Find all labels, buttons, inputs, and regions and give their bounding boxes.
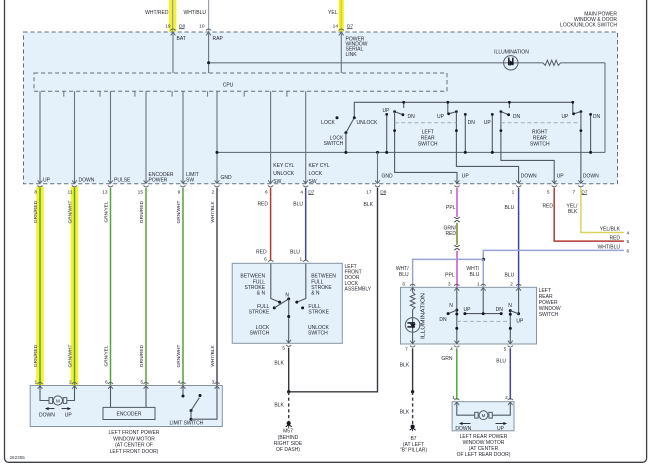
right SPDT contact dot	[517, 312, 520, 315]
svg-text:11: 11	[68, 189, 73, 195]
svg-text:DOWN: DOWN	[455, 426, 471, 432]
svg-text:& N: & N	[311, 291, 320, 297]
svg-text:DOWN: DOWN	[521, 174, 537, 180]
svg-text:POWER: POWER	[149, 178, 168, 184]
connector on UP wire lower	[454, 245, 459, 247]
svg-text:3: 3	[448, 282, 451, 288]
wire CPU pin 2 down	[216, 91, 218, 183]
pin 11 exit arrow	[72, 180, 74, 183]
motor box entry arrows	[38, 386, 40, 389]
LR switch entry arrows	[410, 288, 412, 291]
switch lever	[395, 112, 403, 115]
svg-text:GRN/RED: GRN/RED	[139, 344, 145, 367]
wire resistor to lamp	[412, 310, 414, 344]
lock switch contact UNLOCK	[353, 116, 356, 119]
svg-text:GRN: GRN	[441, 356, 453, 362]
limit switch contact b	[199, 394, 202, 397]
wire WHT/BLK at x=217	[216, 188, 218, 385]
svg-text:DN: DN	[439, 317, 447, 323]
wire WHT/BLU to pin1	[482, 259, 484, 287]
pin 17 exit arrow	[375, 180, 377, 183]
highlight GRN/RED circuit wire 1	[36, 187, 44, 386]
wire key cyl unlock sw from CPU	[270, 91, 272, 183]
svg-text:262355: 262355	[10, 455, 26, 460]
svg-text:WHT/RED: WHT/RED	[145, 10, 169, 16]
wire PPL from UP pin3	[456, 188, 458, 217]
pin 13 exit arrow	[108, 180, 110, 183]
svg-text:BLK: BLK	[274, 402, 284, 408]
svg-text:9: 9	[178, 189, 181, 195]
svg-text:LIMIT SWITCH: LIMIT SWITCH	[170, 421, 204, 427]
svg-text:M57: M57	[283, 429, 293, 435]
wire pin5 to encoder	[145, 386, 147, 408]
svg-text:UP: UP	[561, 114, 569, 120]
switch grounded contact line	[386, 114, 388, 152]
output pin exit arrows	[455, 180, 457, 183]
illumination lamp LR switch	[405, 318, 420, 333]
wire illumination return drop	[604, 63, 606, 153]
ground B7	[411, 425, 415, 429]
pin 15 exit arrow	[144, 180, 146, 183]
switch lever	[449, 112, 457, 114]
svg-text:GRN/WHT: GRN/WHT	[176, 200, 182, 223]
svg-text:17: 17	[366, 189, 372, 195]
svg-text:RAP: RAP	[213, 36, 224, 42]
svg-text:WHT/BLK: WHT/BLK	[210, 345, 216, 367]
wire lock side contact bracket	[271, 264, 280, 303]
svg-text:LEFT FRONT DOOR): LEFT FRONT DOOR)	[110, 449, 159, 455]
switch lever	[574, 112, 581, 114]
switch stub from bus	[403, 102, 405, 108]
wire pin4 to limit switch contact	[182, 386, 184, 395]
wire limit switch pivot down	[190, 411, 192, 420]
svg-text:19: 19	[165, 24, 171, 30]
svg-text:KEY CYL: KEY CYL	[309, 163, 330, 169]
svg-text:(BEHIND: (BEHIND	[278, 435, 299, 441]
svg-text:1: 1	[35, 379, 38, 385]
arrow DOWN direction	[46, 408, 55, 410]
svg-text:BLK: BLK	[400, 363, 410, 369]
wire RAP branch to illumination	[209, 62, 543, 64]
svg-text:GRN/RED: GRN/RED	[139, 200, 145, 223]
switch lever	[501, 112, 509, 115]
contact full stroke unlock	[301, 306, 304, 309]
switch grounded contact line	[464, 114, 466, 152]
wire BLK from GND pin17 down and left	[289, 188, 378, 392]
switch stub from bus	[508, 102, 510, 108]
svg-text:15: 15	[138, 189, 144, 195]
mechanical linkage right rear switch	[501, 122, 581, 124]
svg-text:ILLUMINATION: ILLUMINATION	[420, 292, 426, 339]
pin 6 exit arrow	[268, 180, 270, 183]
center bus from pin1	[482, 288, 484, 314]
splice on B7 wire	[411, 390, 414, 393]
svg-text:STROKE: STROKE	[249, 310, 270, 316]
limit switch pivot	[190, 409, 193, 412]
wire pin2 to motor	[67, 386, 75, 401]
svg-text:7: 7	[573, 189, 576, 195]
right SPDT lever	[510, 311, 518, 314]
svg-text:4: 4	[300, 189, 303, 195]
wire BLU LR switch pin5 to motor pin2	[509, 348, 511, 399]
svg-text:RED: RED	[257, 202, 268, 208]
ground M57	[287, 421, 291, 425]
svg-text:4: 4	[627, 231, 630, 237]
pin 2 exit arrow	[215, 180, 217, 183]
wire RED from UP pin5	[554, 188, 624, 241]
wire pin2 to motor	[493, 402, 511, 415]
svg-text:10: 10	[199, 24, 205, 30]
illumination lamp	[504, 56, 518, 70]
svg-text:SWITCH: SWITCH	[418, 141, 438, 147]
svg-text:1,: 1,	[299, 256, 303, 262]
svg-text:5: 5	[141, 379, 144, 385]
wire key cylinder common down	[288, 299, 290, 343]
wire CPU pin 11 down	[74, 91, 76, 183]
svg-text:BLU: BLU	[496, 358, 506, 364]
wire key cyl lock sw from CPU	[305, 91, 307, 183]
switch stub from bus	[572, 102, 574, 113]
left SPDT tip contact	[447, 312, 450, 315]
svg-text:RED: RED	[542, 203, 553, 209]
svg-text:SW: SW	[186, 178, 194, 184]
svg-text:BLK: BLK	[400, 410, 410, 416]
svg-text:7: 7	[405, 347, 408, 353]
motor M1 left front window	[49, 398, 53, 404]
wire GRN/RED at x=146	[145, 188, 147, 385]
wire resistor to right drop	[561, 62, 606, 64]
svg-text:M: M	[482, 413, 486, 418]
wire RR UP output to pin5	[501, 112, 554, 184]
svg-text:UP: UP	[383, 108, 391, 114]
svg-text:GRN/YEL: GRN/YEL	[103, 201, 109, 222]
svg-text:LINK: LINK	[346, 52, 358, 58]
wire BLK dashed to M57	[288, 392, 290, 422]
svg-text:YEL: YEL	[328, 10, 338, 16]
svg-text:DOWN: DOWN	[583, 174, 599, 180]
svg-text:LOCK/UNLOCK SWITCH: LOCK/UNLOCK SWITCH	[560, 22, 617, 28]
svg-text:PULSE: PULSE	[114, 178, 131, 184]
svg-text:RED: RED	[609, 235, 620, 241]
LR motor entry arrows	[454, 402, 456, 405]
wire GRN/RED segment	[456, 223, 458, 245]
svg-text:SWITCH: SWITCH	[530, 141, 550, 147]
wire pin1 to motor	[40, 386, 49, 401]
highlight WHT/RED circuit	[169, 0, 177, 32]
svg-text:RED: RED	[445, 231, 456, 237]
svg-text:6: 6	[627, 248, 630, 254]
svg-text:ENCODER: ENCODER	[116, 412, 141, 418]
wire RR DN output to pin7	[580, 112, 582, 184]
wire YEL/BLK from DOWN pin7	[581, 188, 624, 233]
svg-text:6: 6	[265, 189, 268, 195]
pin 4 exit arrow	[303, 180, 305, 183]
pivot dot	[509, 309, 512, 312]
svg-text:UNLOCK: UNLOCK	[273, 171, 295, 177]
junction RAP/illumination	[207, 61, 210, 64]
wire BLK dashed to B7	[412, 392, 414, 425]
svg-text:SW: SW	[273, 179, 281, 185]
svg-text:GRN/RED: GRN/RED	[33, 200, 39, 223]
switch stub from bus	[447, 102, 449, 113]
wire BLU from DOWN pin1 to LR switch pin2	[518, 188, 520, 287]
svg-text:BLU: BLU	[290, 250, 300, 256]
motor M2 left rear window	[475, 412, 478, 418]
svg-text:BLU: BLU	[504, 272, 514, 278]
arrow DOWN LR motor	[460, 423, 471, 425]
pin 9 exit arrow	[181, 180, 183, 183]
highlight GRN/WHT circuit wire 2	[71, 187, 79, 386]
junction GND pin17	[376, 151, 379, 154]
pin 8 exit arrow	[38, 180, 40, 183]
main power window and door lock/unlock switch box	[24, 32, 618, 184]
arrow UP direction	[62, 408, 71, 410]
LR switch exit arrows	[410, 341, 412, 344]
svg-text:UP: UP	[65, 412, 73, 418]
svg-text:GRN/RED: GRN/RED	[33, 344, 39, 367]
wire pin6 to encoder	[110, 386, 112, 408]
RAP entry arrow	[206, 32, 208, 35]
svg-text:6: 6	[264, 256, 267, 262]
lock switch lever	[346, 118, 354, 132]
svg-text:UP: UP	[43, 178, 51, 184]
limit switch contact a	[182, 395, 185, 398]
svg-text:SWITCH: SWITCH	[539, 312, 559, 318]
lock switch contact LOCK	[336, 116, 339, 119]
wire RAP to CPU	[208, 32, 210, 73]
svg-text:WHT/BLU: WHT/BLU	[184, 10, 207, 16]
CPU box U1	[34, 73, 447, 91]
svg-text:DN: DN	[496, 307, 504, 313]
svg-text:PPL: PPL	[445, 272, 455, 278]
lock switch pivot	[344, 131, 347, 134]
key cylinder lever	[275, 299, 289, 308]
svg-text:6: 6	[105, 379, 108, 385]
svg-text:GND: GND	[221, 175, 233, 181]
wire lock switch to ground bus	[345, 133, 347, 153]
svg-text:UP: UP	[516, 319, 524, 325]
svg-text:& N: & N	[257, 291, 266, 297]
junction lock switch on bus	[344, 151, 347, 154]
contact full stroke lock	[273, 306, 276, 309]
junction GND bus at CPU GND line	[216, 151, 219, 154]
svg-text:1: 1	[477, 282, 480, 288]
svg-text:GRN/WHT: GRN/WHT	[67, 344, 73, 367]
svg-text:UP: UP	[464, 307, 472, 313]
wire RED key cyl unlock	[270, 188, 272, 260]
wire limit switch to pin3	[191, 386, 217, 419]
svg-text:3: 3	[212, 379, 215, 385]
svg-text:OF LEFT REAR DOOR): OF LEFT REAR DOOR)	[457, 452, 511, 458]
svg-text:14: 14	[333, 24, 339, 30]
svg-text:5: 5	[504, 347, 507, 353]
svg-text:(AT CENTER OF: (AT CENTER OF	[115, 443, 153, 449]
svg-text:RED: RED	[256, 250, 267, 256]
wire WHT/BLU to pin6 illumination	[413, 259, 484, 287]
wire LR UP output to pin3	[395, 112, 457, 184]
pivot dot	[455, 309, 458, 312]
svg-text:BLU: BLU	[504, 205, 514, 211]
svg-text:GRN/WHT: GRN/WHT	[67, 200, 73, 223]
svg-text:LOCK: LOCK	[309, 171, 323, 177]
svg-text:N: N	[449, 303, 453, 309]
mechanical linkage left rear switch	[395, 122, 457, 124]
wire unlock side contact bracket	[297, 264, 306, 303]
svg-text:BLK: BLK	[274, 361, 284, 367]
ground bus wire	[217, 151, 605, 153]
svg-text:6: 6	[402, 282, 405, 288]
svg-text:1: 1	[512, 189, 515, 195]
svg-text:KEY CYL: KEY CYL	[273, 163, 294, 169]
svg-text:N: N	[508, 303, 512, 309]
svg-text:LEFT FRONT POWER: LEFT FRONT POWER	[109, 430, 160, 436]
svg-text:4: 4	[450, 347, 453, 353]
svg-text:BLU: BLU	[469, 272, 479, 278]
switch grounded contact line	[491, 114, 493, 152]
wire WHT/BLU RAP feed	[208, 0, 210, 31]
mechanical linkage LR switch	[457, 320, 511, 322]
svg-text:5: 5	[282, 345, 285, 351]
svg-text:2: 2	[505, 395, 508, 401]
svg-text:8: 8	[34, 189, 37, 195]
svg-text:13: 13	[102, 189, 108, 195]
svg-text:BAT: BAT	[177, 36, 186, 42]
wire GRN/WHT at x=74.5	[74, 188, 76, 385]
wire WHT/BLU ladder	[483, 250, 624, 259]
svg-text:SWITCH: SWITCH	[250, 331, 270, 337]
svg-text:2: 2	[212, 189, 215, 195]
svg-text:DN: DN	[593, 114, 601, 120]
left SPDT lever	[448, 310, 457, 314]
LR switch right SPDT contact line pin2	[518, 288, 520, 314]
svg-text:SWITCH: SWITCH	[308, 331, 328, 337]
svg-text:"B" PILLAR): "B" PILLAR)	[400, 448, 428, 454]
svg-text:2: 2	[69, 379, 72, 385]
switch grounded contact line	[590, 114, 592, 152]
wire GRN/YEL at x=110.5	[110, 188, 112, 385]
wire WHT/RED BAT feed	[172, 0, 174, 31]
highlight YEL serial link	[339, 0, 344, 32]
svg-text:STROKE: STROKE	[308, 310, 329, 316]
wire BAT to CPU	[172, 32, 174, 73]
wire GND pin17 drop	[377, 152, 379, 183]
resistor illumination	[543, 60, 561, 65]
BAT entry arrow	[171, 32, 173, 35]
svg-text:4: 4	[178, 379, 181, 385]
svg-text:CPU: CPU	[223, 82, 234, 88]
svg-text:UP: UP	[437, 114, 445, 120]
svg-text:ILLUMINATION: ILLUMINATION	[494, 50, 529, 56]
svg-text:DN: DN	[408, 114, 416, 120]
left rear power window switch box	[401, 287, 537, 344]
svg-text:GRN/YEL: GRN/YEL	[103, 345, 109, 366]
svg-text:GND: GND	[382, 174, 394, 180]
wire CPU pin 8 down	[39, 91, 41, 183]
svg-text:WHT/BLK: WHT/BLK	[210, 201, 216, 223]
wire GRN LR switch pin4 to motor pin1	[456, 348, 458, 399]
svg-text:5: 5	[547, 189, 550, 195]
CPU unused stub pins	[63, 91, 65, 96]
svg-text:BLK: BLK	[568, 209, 578, 215]
svg-text:LOCK: LOCK	[321, 120, 335, 126]
entry arrows lock assembly	[268, 264, 270, 267]
LR switch left SPDT pivot line pin3 to pin4	[456, 288, 458, 344]
wire BLK from lock assembly	[288, 348, 290, 392]
junction M57 splice	[287, 390, 290, 393]
svg-text:2: 2	[510, 282, 513, 288]
illumination resistor LR switch	[412, 288, 414, 293]
wire PPL to LR switch pin3	[456, 251, 458, 287]
wire CPU pin 15 down	[145, 91, 147, 183]
wire LR DN output to pin1	[456, 112, 518, 184]
wire YEL power window serial link	[340, 0, 342, 31]
left rear power window motor box	[452, 402, 514, 431]
svg-text:M: M	[56, 399, 60, 404]
wire serial link to CPU	[340, 32, 342, 73]
encoder box	[103, 407, 155, 419]
svg-text:UP: UP	[497, 426, 505, 432]
svg-text:UP: UP	[484, 120, 492, 126]
serial link entry arrow	[339, 32, 341, 35]
wire CPU pin 9 down	[182, 91, 184, 183]
left front power window motor box	[30, 386, 222, 427]
svg-text:3: 3	[450, 189, 453, 195]
svg-text:DOWN: DOWN	[39, 412, 55, 418]
svg-text:WINDOW MOTOR: WINDOW MOTOR	[113, 436, 155, 442]
svg-text:UNLOCK: UNLOCK	[357, 120, 379, 126]
wire GRN/RED at x=40	[39, 188, 41, 385]
svg-text:WHT/BLU: WHT/BLU	[598, 245, 621, 251]
svg-text:SW: SW	[309, 179, 317, 185]
left front door lock assembly box	[232, 263, 342, 343]
svg-text:GRN/WHT: GRN/WHT	[176, 344, 182, 367]
wire GRN/WHT at x=183	[182, 188, 184, 385]
svg-text:5: 5	[627, 239, 630, 245]
svg-text:UP: UP	[462, 174, 470, 180]
svg-text:YEL/BLK: YEL/BLK	[600, 227, 621, 233]
svg-text:BLU: BLU	[399, 272, 409, 278]
right SPDT pivot line to pin5	[509, 311, 511, 344]
svg-text:UP: UP	[557, 174, 565, 180]
wire BLK from LR switch pin7	[412, 348, 414, 392]
exit arrow pin 5 lock assembly	[286, 340, 288, 343]
top bus to unlock contact	[354, 102, 573, 117]
connector on UP wire upper	[454, 217, 459, 219]
svg-text:BLU: BLU	[293, 202, 303, 208]
svg-text:DN: DN	[468, 120, 476, 126]
wire CPU pin 13 down	[110, 91, 112, 183]
svg-text:ASSEMBLY: ASSEMBLY	[345, 286, 372, 292]
svg-text:SWITCH: SWITCH	[324, 141, 344, 147]
svg-text:OF DASH): OF DASH)	[276, 447, 300, 453]
svg-text:DOWN: DOWN	[79, 178, 95, 184]
limit switch lever	[191, 398, 199, 411]
wire BLU key cyl lock	[305, 188, 307, 260]
arrow UP LR motor	[496, 423, 507, 425]
key cylinder common pivot	[287, 297, 290, 300]
svg-text:RIGHT SIDE: RIGHT SIDE	[274, 441, 303, 447]
svg-text:DN: DN	[513, 114, 521, 120]
svg-text:PPL: PPL	[446, 205, 456, 211]
wire pin1 to motor	[457, 402, 475, 415]
junction WHT/BLU split	[482, 258, 485, 261]
svg-text:BLK: BLK	[364, 202, 374, 208]
